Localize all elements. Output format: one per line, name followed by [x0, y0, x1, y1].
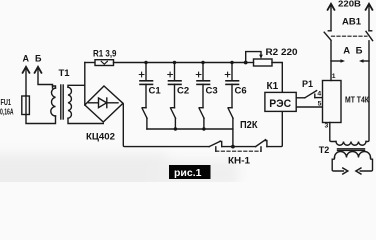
timer box МТ Т4К: [323, 73, 370, 130]
svg-text:А: А: [23, 54, 30, 64]
svg-text:КН-1: КН-1: [228, 155, 251, 166]
core: [60, 85, 62, 119]
svg-text:рис.1: рис.1: [174, 167, 202, 179]
transformer T1: [51, 68, 104, 123]
node A (input arrow А): [23, 54, 30, 97]
wire АВ1 left down to МТ pin 1: [330, 41, 332, 81]
svg-text:3: 3: [325, 123, 329, 130]
secondary winding: [68, 87, 71, 118]
svg-text:FU1: FU1: [1, 98, 12, 107]
wire fuse bottom to T1 primary bottom: [26, 115, 56, 124]
node B (input arrow Б): [35, 54, 53, 89]
svg-text:0,16А: 0,16А: [0, 107, 14, 116]
resistor R2 220 (trimmer): [244, 47, 298, 92]
scan gray wash around title: [152, 160, 238, 188]
scan gray wash bottom-left: [0, 154, 166, 196]
capacitor C6: [225, 61, 246, 147]
wire top rail: [114, 62, 246, 64]
wire АВ1 right down to Т2: [366, 41, 369, 142]
svg-text:4: 4: [317, 91, 321, 98]
svg-text:Б: Б: [35, 54, 42, 64]
wire МТ pin 3 to Т2: [330, 123, 336, 142]
svg-text:R1 3,9: R1 3,9: [93, 48, 117, 59]
capacitor C3: [196, 61, 217, 129]
svg-text:Б: Б: [356, 45, 363, 56]
svg-text:С1: С1: [149, 86, 162, 97]
resistor R1 3,9: [85, 48, 117, 65]
svg-text:П2К: П2К: [240, 120, 258, 131]
svg-text:Т2: Т2: [319, 145, 330, 155]
secondary winding: [335, 152, 371, 158]
wire top rail down to bridge left corner: [84, 63, 86, 106]
svg-text:АВ1: АВ1: [342, 17, 362, 28]
primary winding: [336, 142, 366, 146]
capacitor C2: [168, 61, 189, 129]
pin 5 wire: [296, 101, 322, 108]
svg-text:Т1: Т1: [59, 68, 71, 79]
figure title рис.1: [169, 165, 211, 179]
svg-text:1: 1: [332, 73, 336, 80]
fuse FU1 0,16A: [0, 96, 29, 116]
svg-text:К1: К1: [267, 81, 279, 92]
capacitor C1: [139, 61, 161, 129]
svg-text:С3: С3: [206, 86, 218, 97]
transformer Т2: [319, 142, 373, 175]
svg-text:220В: 220В: [338, 0, 361, 8]
wire secondary top to bridge: [68, 85, 85, 87]
svg-text:КЦ402: КЦ402: [86, 131, 115, 142]
svg-text:А: А: [343, 45, 350, 56]
button КН-1 right contact: [216, 111, 282, 166]
svg-text:R2 220: R2 220: [266, 47, 298, 58]
primary winding: [51, 88, 56, 116]
svg-text:С6: С6: [235, 86, 247, 97]
junction dot bottom rail: [231, 145, 235, 149]
wire bridge right corner to bottom rail: [123, 103, 209, 146]
switch block П2К common rail: [147, 120, 258, 131]
svg-text:РЭС: РЭС: [269, 98, 291, 110]
svg-text:5: 5: [318, 101, 322, 108]
bridge rectifier KЦ402: [85, 86, 123, 142]
relay contact P1: [296, 79, 322, 98]
output loop with electrode arrows: [332, 158, 343, 172]
breaker АВ1: [324, 17, 372, 41]
relay K1 coil РЭС: [265, 81, 296, 112]
mains 220В arrows: [328, 0, 373, 31]
net arrows А Б to left section: [331, 45, 369, 62]
button КН-1 left contact: [209, 141, 255, 151]
wire secondary bottom to bridge bottom: [68, 118, 103, 123]
svg-text:С2: С2: [177, 86, 189, 97]
core: [338, 148, 365, 150]
svg-text:МТ Т4К: МТ Т4К: [345, 94, 370, 104]
svg-text:Р1: Р1: [302, 79, 313, 89]
